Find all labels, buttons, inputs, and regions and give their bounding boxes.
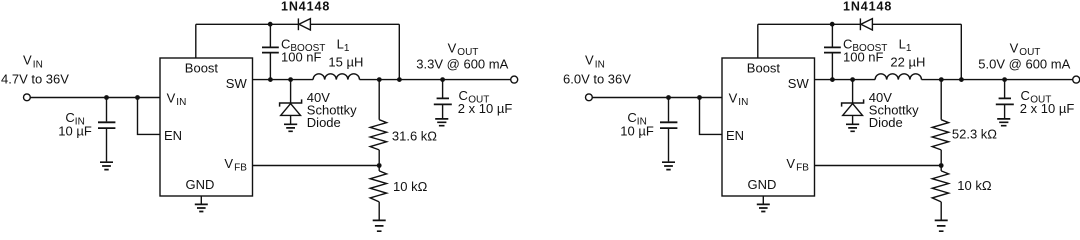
svg-text:52.3 kΩ: 52.3 kΩ <box>952 126 997 141</box>
svg-text:22 µH: 22 µH <box>890 54 925 69</box>
svg-text:4.7V to 36V: 4.7V to 36V <box>1 72 69 87</box>
svg-text:31.6 kΩ: 31.6 kΩ <box>392 128 437 143</box>
svg-text:10 kΩ: 10 kΩ <box>957 178 992 193</box>
svg-text:3.3V @ 600 mA: 3.3V @ 600 mA <box>416 56 508 71</box>
svg-text:10 kΩ: 10 kΩ <box>393 179 428 194</box>
svg-text:5.0V @ 600 mA: 5.0V @ 600 mA <box>978 56 1070 71</box>
svg-text:15 µH: 15 µH <box>328 54 363 69</box>
svg-text:6.0V to 36V: 6.0V to 36V <box>563 72 631 87</box>
